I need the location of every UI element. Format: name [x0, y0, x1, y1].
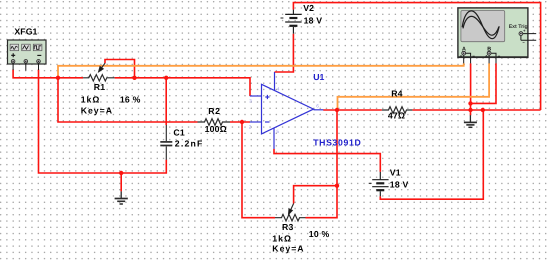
wire scope A minus down	[470, 63, 472, 103]
svg-text:100Ω: 100Ω	[205, 124, 227, 134]
label R2	[205, 106, 227, 134]
label R1	[81, 82, 141, 115]
junction scope A minus	[468, 101, 472, 105]
resistor R4	[382, 107, 413, 114]
capacitor C1	[160, 125, 172, 160]
resistor R3 potentiometer	[275, 204, 306, 222]
op-amp pin numbers	[249, 86, 319, 134]
ground right	[464, 115, 477, 127]
oscilloscope XSC1	[458, 8, 536, 64]
junction R1 wiper	[132, 76, 136, 80]
svg-text:18 V: 18 V	[304, 16, 323, 26]
label U1	[313, 72, 361, 148]
wire A minus to ground	[470, 103, 472, 115]
label XFG1	[14, 27, 37, 37]
svg-text:V2: V2	[303, 3, 314, 13]
wire R1 wiper elbow	[105, 60, 135, 78]
svg-text:THS3091D: THS3091D	[313, 137, 361, 147]
svg-text:Key=A: Key=A	[81, 105, 113, 115]
svg-text:Key=A: Key=A	[272, 244, 304, 254]
battery V1	[369, 172, 389, 196]
svg-text:R3: R3	[282, 222, 294, 232]
wire op-amp V- pin to V1 top	[274, 149, 380, 172]
wire scope B minus link	[471, 63, 497, 103]
wire left ground stub	[120, 173, 122, 191]
resistor R1 potentiometer	[83, 63, 115, 81]
svg-text:4: 4	[277, 86, 280, 91]
junction minus input	[240, 120, 244, 124]
wire V2 bottom to op-amp V+ pin	[275, 34, 294, 72]
wire R3 right up to output node	[306, 110, 338, 218]
label V1	[390, 168, 409, 190]
wire orange output to scope channel B	[338, 63, 490, 109]
svg-text:R1: R1	[94, 82, 106, 92]
junction ground rail	[468, 108, 472, 112]
junction node A	[56, 76, 60, 80]
wire R2 to op-amp minus input	[230, 121, 250, 123]
wire output line to R4 and rail	[323, 109, 540, 111]
svg-text:Ext Trig: Ext Trig	[509, 24, 528, 30]
wire XFG1 plus to node A	[13, 70, 83, 78]
svg-text:1kΩ: 1kΩ	[81, 94, 101, 104]
battery V2	[281, 10, 302, 34]
wire V1 bottom to ground rail	[380, 110, 483, 199]
label R3	[272, 222, 329, 254]
label R4	[388, 89, 405, 121]
svg-text:C1: C1	[173, 128, 185, 138]
svg-text:V1: V1	[390, 168, 401, 178]
svg-text:XFG1: XFG1	[14, 27, 37, 37]
wire top net V2+ to right rail	[293, 3, 540, 110]
wire R1 right branch down to C1	[165, 78, 167, 125]
svg-text:R4: R4	[391, 89, 403, 99]
svg-text:18 V: 18 V	[390, 180, 409, 190]
wire R3 wiper elbow	[294, 186, 337, 204]
wire node A down to R2 line	[58, 78, 198, 122]
resistor R2	[198, 119, 231, 126]
svg-text:1kΩ: 1kΩ	[272, 233, 292, 243]
function generator XFG1	[8, 40, 47, 71]
svg-text:16 %: 16 %	[120, 94, 141, 104]
op-amp U1	[250, 72, 324, 149]
wire orange node A to scope channel A	[58, 63, 464, 77]
svg-text:3: 3	[249, 99, 252, 104]
wire feedback minus input down to R3	[242, 122, 275, 218]
label V2	[303, 3, 322, 26]
svg-text:2: 2	[249, 125, 252, 130]
svg-text:47Ω: 47Ω	[388, 111, 405, 121]
svg-text:2.2nF: 2.2nF	[175, 138, 204, 148]
svg-text:R2: R2	[208, 106, 221, 116]
svg-text:U1: U1	[313, 72, 324, 82]
junction output node	[335, 108, 339, 112]
junction left ground	[119, 171, 123, 175]
junction R1 right	[164, 76, 168, 80]
wire R1 right to op-amp plus input	[115, 78, 250, 96]
label C1	[173, 128, 203, 149]
svg-text:6: 6	[316, 104, 319, 109]
wire XFG1 minus bottom loop to C1 bottom	[39, 70, 167, 174]
svg-text:5: 5	[276, 129, 279, 134]
ground left	[115, 191, 128, 204]
svg-text:10 %: 10 %	[309, 229, 330, 239]
junction V1 minus rail	[481, 108, 485, 112]
junction R3 wiper	[335, 184, 339, 188]
